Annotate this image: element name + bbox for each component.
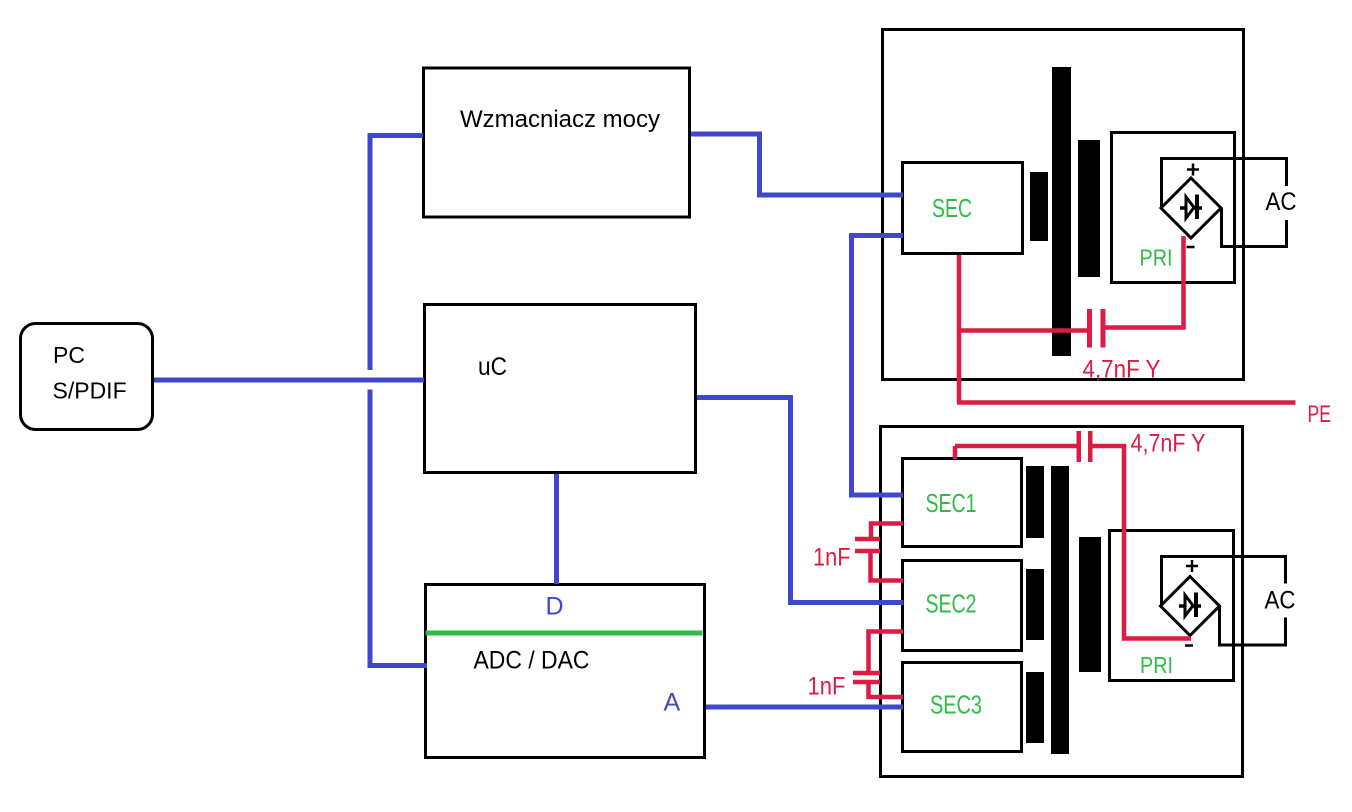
minus terminal 1	[1187, 246, 1195, 249]
wire SEC2 bottom to capacitor C1nF B (red)	[869, 632, 904, 672]
svg-text:AC: AC	[1266, 188, 1297, 216]
svg-text:A: A	[664, 689, 681, 717]
wire uC to ADC D (blue)	[554, 474, 559, 584]
capacitor CY1 4,7nF Y plates	[1090, 309, 1104, 348]
AC source loop 2	[1162, 557, 1286, 646]
svg-text:SEC1: SEC1	[926, 488, 977, 518]
diode glyph inside bridge 1	[1180, 195, 1202, 220]
wire PC to uC (blue)	[154, 378, 424, 383]
capacitor C1nF A plates	[855, 539, 880, 551]
wire capacitor CY2 to bridge 2 minus (red)	[1093, 446, 1192, 639]
wire SEC1 top stub (red)	[953, 446, 958, 459]
transformer 2 core bar (SEC1 side)	[1026, 466, 1044, 538]
block PC S/PDIF	[21, 324, 153, 430]
wire PE (red)	[957, 400, 1296, 405]
transformer 2 core bar (SEC3 side)	[1026, 672, 1044, 743]
wire Wzmacniacz to SEC (blue)	[691, 134, 903, 195]
wire SEC1 bottom to capacitor C1nF A (red)	[871, 524, 903, 538]
wire SEC bottom to PE (red)	[957, 255, 962, 403]
svg-text:SEC3: SEC3	[930, 690, 982, 720]
plus terminal 1	[1187, 164, 1199, 176]
wire bus bottom horizontal to ADC (blue)	[368, 663, 428, 668]
svg-text:1nF: 1nF	[813, 544, 851, 572]
transformer 1 enclosure	[883, 30, 1244, 380]
wire bus top horizontal to Wzmacniacz (blue)	[368, 133, 424, 138]
wire ADC A to SEC3 (blue)	[706, 705, 903, 710]
capacitor CY2 4,7nF Y plates	[1079, 431, 1091, 462]
block uC	[425, 305, 696, 473]
svg-text:4,7nF Y: 4,7nF Y	[1131, 430, 1206, 458]
svg-text:4,7nF Y: 4,7nF Y	[1083, 356, 1161, 384]
AC source loop 1	[1162, 159, 1287, 247]
svg-text:1nF: 1nF	[808, 673, 846, 701]
block PRI 2	[1110, 531, 1234, 681]
svg-text:S/PDIF: S/PDIF	[53, 378, 127, 404]
wire SEC to SEC1 (blue)	[852, 236, 904, 496]
block PRI 1	[1112, 133, 1235, 283]
svg-text:PE: PE	[1308, 401, 1332, 428]
bridge rectifier diamond 1	[1161, 178, 1221, 238]
winding box SEC3	[903, 663, 1022, 752]
minus terminal 2	[1185, 644, 1193, 647]
wire capacitor C1nF B to SEC3 top (red)	[869, 684, 904, 698]
winding box SEC1	[903, 459, 1022, 547]
block ADC / DAC	[426, 585, 705, 758]
transformer 2 core bar (SEC2 side)	[1026, 569, 1044, 640]
wire red junction to capacitor CY1 left plate	[957, 328, 1087, 333]
svg-text:PRI: PRI	[1140, 245, 1173, 271]
svg-text:SEC: SEC	[932, 193, 972, 223]
transformer 1 core bar (primary side)	[1078, 140, 1100, 277]
block Wzmacniacz mocy	[424, 68, 690, 217]
diode glyph inside bridge 2	[1179, 593, 1201, 618]
wire bus vertical lower segment (blue)	[368, 390, 373, 669]
svg-text:PC: PC	[53, 342, 85, 368]
capacitor C1nF B plates	[853, 673, 880, 682]
svg-text:D: D	[546, 593, 564, 621]
svg-text:SEC2: SEC2	[926, 589, 977, 619]
winding box SEC2	[903, 561, 1022, 651]
wire uC to SEC2 (blue)	[697, 398, 904, 603]
svg-text:uC: uC	[478, 353, 507, 381]
wire SEC1 to capacitor CY2 left plate (red)	[955, 444, 1077, 449]
winding box SEC	[903, 163, 1023, 254]
svg-text:ADC / DAC: ADC / DAC	[474, 647, 590, 675]
svg-text:AC: AC	[1265, 587, 1296, 615]
transformer 1 core bar (tall center)	[1052, 67, 1071, 356]
transformer 2 enclosure	[881, 427, 1243, 777]
transformer 1 core bar (secondary side)	[1030, 172, 1048, 241]
bridge rectifier diamond 2	[1161, 577, 1220, 636]
svg-text:PRI: PRI	[1140, 652, 1173, 678]
green digital/analog divider line	[426, 631, 703, 636]
svg-text:Wzmacniacz mocy: Wzmacniacz mocy	[460, 106, 660, 133]
wire capacitor C1nF A to SEC2 top (red)	[871, 553, 904, 581]
wire bus vertical upper segment (blue)	[368, 133, 373, 370]
plus terminal 2	[1186, 560, 1198, 572]
wire capacitor CY1 to bridge minus (red)	[1105, 236, 1184, 328]
transformer 2 core bar (tall center)	[1051, 466, 1069, 754]
transformer 2 core bar (primary side)	[1079, 537, 1101, 672]
